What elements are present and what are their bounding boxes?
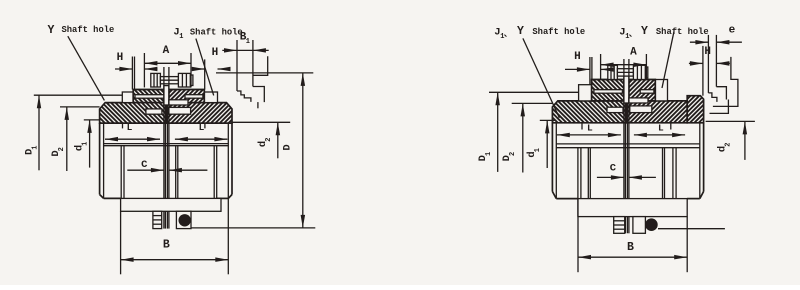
svg-text:B: B	[163, 239, 170, 252]
bottom flange	[578, 199, 687, 217]
svg-text:1: 1	[534, 148, 542, 152]
phantom tick	[257, 102, 259, 108]
hub right inner face	[175, 146, 177, 199]
top bolt shank	[617, 69, 633, 76]
svg-text:L: L	[658, 122, 664, 133]
gear tooth end lines	[581, 123, 583, 130]
leader 1	[523, 38, 560, 118]
flange slot left	[594, 90, 623, 94]
B extension lines	[120, 211, 122, 274]
sleeve slot right	[169, 107, 191, 114]
label d2	[257, 138, 273, 148]
dimension d1	[84, 119, 100, 121]
svg-text:1: 1	[485, 152, 493, 156]
dimension C arrows	[127, 169, 164, 171]
label d2	[716, 143, 732, 153]
flange top edge	[133, 89, 164, 91]
dimension d2	[232, 121, 290, 123]
svg-text:L: L	[127, 122, 133, 133]
hub left end face	[577, 148, 579, 217]
sleeve bottom silhouette	[104, 197, 122, 199]
dimension B1	[222, 49, 268, 51]
bottom bolt washer	[179, 214, 191, 226]
svg-text:2: 2	[509, 152, 517, 156]
sleeve right wall	[703, 123, 705, 192]
dimension D	[216, 72, 313, 74]
dimension H left	[565, 68, 590, 70]
svg-text:H: H	[117, 52, 124, 64]
leader 2	[662, 32, 674, 88]
svg-text:1: 1	[32, 145, 40, 149]
flange slot left	[135, 95, 167, 99]
svg-text:Shaft hole: Shaft hole	[190, 28, 243, 38]
svg-text:H: H	[704, 46, 711, 58]
label d1	[526, 148, 542, 158]
sleeve slot right	[630, 106, 652, 113]
dimension D1	[34, 94, 123, 96]
dimension d1	[540, 119, 557, 121]
svg-text:Y: Y	[517, 25, 524, 38]
sleeve joint gap lines	[623, 59, 625, 217]
svg-text:2: 2	[58, 147, 66, 151]
flange joint recess	[169, 100, 188, 105]
dimension H right	[689, 62, 703, 64]
svg-text:Shaft hole: Shaft hole	[656, 27, 709, 37]
dimension D2	[60, 106, 100, 108]
label J1 shaft hole	[173, 27, 183, 42]
svg-text:2: 2	[724, 143, 732, 147]
leader J1	[196, 39, 214, 96]
svg-text:B: B	[627, 241, 634, 254]
dimension d2	[706, 120, 755, 122]
dimension A	[144, 62, 191, 64]
flange right cap	[655, 80, 667, 101]
dimension D1	[489, 91, 579, 93]
flange slot right	[640, 90, 654, 94]
sleeve left wall	[551, 123, 553, 192]
svg-text:Shaft hole: Shaft hole	[532, 27, 585, 37]
label D2	[50, 147, 66, 157]
svg-text:A: A	[630, 46, 637, 58]
phantom bracket outer	[713, 57, 738, 107]
bottom extension line	[658, 228, 725, 230]
label D1	[24, 145, 40, 155]
bottom extension line	[191, 227, 315, 229]
svg-text:e: e	[729, 24, 736, 36]
hub right end face	[213, 146, 215, 212]
svg-text:2: 2	[265, 138, 273, 142]
dimension L right	[634, 134, 685, 136]
flange joint gap	[624, 76, 629, 103]
svg-text:C: C	[141, 159, 148, 171]
svg-text:、: 、	[629, 30, 637, 39]
top bolt nut	[178, 73, 190, 87]
dimension B	[578, 256, 687, 258]
phantom hub step outline	[237, 91, 251, 102]
sleeve bottom silhouette	[556, 198, 578, 200]
bottom flange	[121, 198, 221, 211]
hub right step	[662, 148, 664, 217]
sleeve slot left	[607, 107, 623, 112]
top bolt nut	[633, 65, 645, 79]
leader Y	[68, 36, 105, 100]
top bolt washer	[190, 75, 193, 86]
label B1	[240, 31, 250, 46]
svg-text:C: C	[610, 163, 617, 175]
gear tooth end lines	[122, 123, 124, 128]
top bolt shank	[160, 77, 178, 84]
dimension H right	[192, 68, 205, 70]
svg-text:Y: Y	[47, 24, 54, 37]
flange left cap	[579, 85, 592, 101]
svg-text:D: D	[281, 144, 293, 150]
hub left step	[587, 148, 589, 217]
flange joint gap	[164, 86, 169, 105]
svg-text:Y: Y	[641, 25, 648, 38]
svg-text:A: A	[163, 45, 170, 57]
dimension A	[601, 64, 647, 66]
svg-text:L: L	[199, 122, 205, 133]
label d1	[73, 142, 89, 152]
label D1	[477, 152, 493, 162]
dimension B	[121, 259, 229, 261]
hub right end face	[672, 148, 674, 217]
dimension D2	[512, 102, 553, 104]
sleeve slot left	[146, 109, 162, 114]
bottom bolt head	[633, 217, 646, 234]
bottom bolt nut	[153, 211, 162, 228]
dimension H left	[115, 68, 132, 70]
phantom bracket	[253, 56, 267, 75]
dimension C arrows	[597, 176, 624, 178]
svg-text:1: 1	[179, 33, 183, 41]
bottom bolt nut	[614, 217, 625, 234]
label J1,Y shaft hole left	[494, 27, 504, 42]
label D2	[501, 152, 517, 162]
flange right cap	[204, 92, 217, 103]
flange top edge	[592, 79, 624, 81]
sleeve left wall	[99, 123, 101, 194]
gear rim lines	[556, 143, 700, 145]
svg-text:1: 1	[81, 142, 89, 146]
phantom hub outline	[702, 46, 704, 96]
flange slot right	[185, 95, 203, 99]
dimension L left	[557, 134, 621, 136]
flange left cap	[122, 92, 133, 103]
phantom bracket inner	[710, 100, 729, 114]
bottom bolt head	[176, 211, 191, 228]
hub left end face	[120, 146, 122, 212]
top bolt washer	[645, 67, 647, 78]
svg-text:1: 1	[246, 38, 250, 46]
dimension L left	[105, 138, 160, 140]
svg-text:Shaft hole: Shaft hole	[62, 25, 115, 35]
svg-text:H: H	[574, 51, 581, 63]
gear rim lines	[104, 143, 229, 145]
svg-text:L: L	[587, 122, 593, 133]
dimension L right	[175, 138, 228, 140]
sleeve right wall	[231, 123, 233, 194]
dimension e	[690, 41, 709, 43]
B extension lines	[577, 217, 579, 273]
label J1,Y shaft hole right	[619, 27, 629, 42]
top bolt head	[608, 65, 618, 79]
flange joint recess	[629, 98, 648, 103]
phantom hub corner	[253, 87, 264, 103]
bottom bolt washer	[645, 218, 658, 231]
svg-text:H: H	[212, 47, 219, 59]
sleeve joint gap lines	[163, 67, 165, 211]
svg-text:、: 、	[504, 30, 512, 39]
top bolt head	[151, 73, 161, 87]
